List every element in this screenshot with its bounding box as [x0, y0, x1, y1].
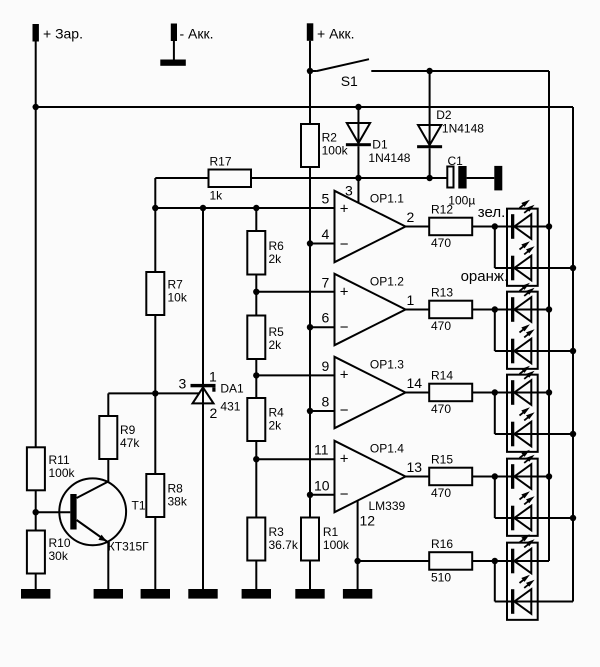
node +Zar rail corner junction: [33, 104, 39, 110]
wire R13 to LED pair: [472, 309, 549, 311]
svg-text:R15: R15: [431, 453, 453, 467]
LED pair box 1: [507, 209, 538, 286]
ground (R8): [141, 589, 170, 599]
svg-text:14: 14: [407, 375, 423, 391]
wire divider to OP1.2 - input: [310, 326, 335, 328]
svg-text:8: 8: [322, 394, 330, 410]
svg-text:R7: R7: [168, 278, 184, 292]
svg-text:470: 470: [431, 319, 451, 333]
svg-text:470: 470: [431, 236, 451, 250]
resistor R10 30k: [27, 531, 71, 574]
LED orange/bottom of pair 3: [511, 407, 535, 446]
node divider junction: [307, 408, 313, 414]
ground (T1 emitter): [94, 589, 123, 599]
svg-text:2: 2: [407, 209, 415, 225]
resistor R15 470: [429, 453, 472, 501]
node D1 on supply rail: [355, 175, 361, 181]
LED orange/bottom of pair 2: [511, 324, 535, 363]
LED pair box 2: [507, 292, 538, 369]
terminal -Akk.: [171, 24, 214, 42]
node ladder tap junction: [253, 456, 259, 462]
node second LED anode on +Zar rail: [570, 348, 576, 354]
svg-text:OP1.2: OP1.2: [370, 274, 404, 288]
svg-text:R2: R2: [322, 131, 338, 145]
resistor R5 2k: [247, 316, 284, 360]
shunt regulator DA1 431: [179, 368, 245, 421]
svg-text:10k: 10k: [168, 291, 188, 305]
LED green/top of pair 3: [511, 366, 535, 405]
resistor R8 38k: [146, 393, 188, 517]
svg-text:−: −: [340, 486, 349, 503]
node divider junction: [307, 324, 313, 330]
wire R17 left to reference column: [155, 178, 208, 208]
LED orange/bottom of pair 5: [511, 575, 535, 614]
svg-text:2: 2: [210, 405, 218, 421]
svg-text:R9: R9: [120, 423, 136, 437]
svg-text:30k: 30k: [49, 549, 69, 563]
wire comparator supply rail: [251, 177, 447, 179]
node LED anode on rail: [546, 306, 552, 312]
resistor R12 470: [429, 203, 472, 251]
node ref row / R7 column: [152, 205, 158, 211]
wire R3 to ground: [255, 561, 257, 590]
svg-text:D2: D2: [436, 108, 452, 122]
LED pair box 3: [507, 375, 538, 452]
svg-text:1N4148: 1N4148: [368, 151, 410, 165]
node LED cathode junction: [492, 223, 498, 229]
svg-text:470: 470: [431, 486, 451, 500]
node D2 on supply rail: [426, 175, 432, 181]
svg-text:R1: R1: [323, 525, 339, 539]
svg-text:R4: R4: [269, 406, 285, 420]
wire R6 to R5: [255, 275, 257, 316]
wire R11 to R10: [35, 490, 37, 530]
node LED anode on rail: [546, 389, 552, 395]
svg-text:1: 1: [407, 292, 415, 308]
LED green/top of pair 5: [511, 534, 535, 573]
wire R12 to LED pair: [472, 226, 549, 228]
svg-text:R3: R3: [269, 525, 285, 539]
svg-text:зел.: зел.: [478, 204, 505, 221]
wire second LED branch (drop and row): [495, 393, 573, 435]
svg-text:R5: R5: [269, 325, 285, 339]
svg-text:OP1.4: OP1.4: [370, 441, 404, 455]
ground (R1): [295, 589, 324, 599]
svg-text:100k: 100k: [49, 466, 76, 480]
node ref row / DA1 column: [200, 205, 206, 211]
svg-text:LM339: LM339: [369, 499, 406, 513]
svg-text:+ Акк.: + Акк.: [317, 26, 355, 42]
svg-text:R13: R13: [431, 286, 453, 300]
node second LED anode on +Zar rail: [570, 431, 576, 437]
svg-text:5: 5: [322, 191, 330, 207]
wire OP1.1 pin3 to supply rail: [357, 178, 359, 203]
wire ladder top segment: [255, 208, 257, 231]
svg-text:−: −: [340, 236, 349, 253]
wire R8 bottom to ground: [154, 517, 156, 589]
label zel. (green): [478, 204, 505, 221]
resistor R14 470: [429, 369, 472, 417]
svg-text:DA1: DA1: [220, 382, 244, 396]
svg-text:R17: R17: [210, 155, 232, 169]
wire R9 bottom to T1 collector: [107, 459, 109, 483]
LED green/top of pair 2: [511, 283, 535, 322]
svg-text:R16: R16: [431, 537, 453, 551]
node second LED anode on +Zar rail: [570, 515, 576, 521]
resistor R7 10k: [146, 208, 188, 315]
svg-text:100k: 100k: [322, 144, 349, 158]
wire OP1.3 output to R14: [406, 392, 430, 394]
svg-text:T1: T1: [132, 499, 146, 513]
svg-text:2k: 2k: [269, 252, 283, 266]
svg-text:3: 3: [345, 183, 353, 199]
resistor R3 36.7k: [247, 518, 299, 561]
svg-text:7: 7: [322, 274, 330, 290]
switch S1: [310, 59, 369, 89]
svg-text:R10: R10: [49, 536, 71, 550]
svg-text:431: 431: [220, 399, 240, 413]
wire R15 to LED pair: [472, 476, 549, 478]
LED green/top of pair 1: [511, 200, 535, 239]
wire switch to right rail: [371, 70, 549, 72]
wire R6/R5 tap to OP1.2 +: [256, 291, 334, 293]
terminal +Zar.: [33, 24, 83, 42]
wire OP1.2 output to R13: [406, 309, 430, 311]
wire right vertical rail from +Zar: [572, 107, 574, 602]
ground (pin12): [343, 589, 372, 599]
resistor R17 1k: [209, 155, 252, 203]
svg-text:D1: D1: [372, 138, 388, 152]
svg-text:C1: C1: [448, 154, 464, 168]
LED green/top of pair 4: [511, 450, 535, 489]
svg-text:R8: R8: [168, 482, 184, 496]
node ladder tap junction: [253, 289, 259, 295]
node ref divider (R7/R8/R9/DA1-ref): [152, 390, 158, 396]
op-amp comparator OP1.1: [322, 183, 415, 263]
svg-text:10: 10: [314, 477, 330, 493]
svg-text:+: +: [340, 201, 349, 218]
wire second LED branch (drop and row): [495, 561, 573, 602]
ground (R10): [21, 589, 50, 599]
label oranzh. (orange): [461, 268, 509, 285]
op-amp comparator OP1.4: [314, 441, 422, 529]
op-amp comparator OP1.2: [322, 274, 415, 345]
LED pair box 5: [507, 543, 538, 620]
wire OP1.4 pin12 to ground: [357, 501, 359, 589]
resistor R13 470: [429, 286, 472, 334]
node divider junction: [307, 240, 313, 246]
LED orange/bottom of pair 4: [511, 491, 535, 530]
svg-text:47k: 47k: [120, 436, 140, 450]
wire DA1 cathode column: [202, 208, 204, 589]
svg-text:36.7k: 36.7k: [269, 538, 299, 552]
svg-text:6: 6: [322, 310, 330, 326]
svg-text:+: +: [340, 367, 349, 384]
wire R4 to R3: [255, 441, 257, 518]
wire R4/R3 tap to OP1.4 +: [256, 458, 334, 460]
svg-text:38k: 38k: [168, 495, 188, 509]
svg-text:11: 11: [314, 442, 329, 458]
wire reference row to OP1.1 + input: [155, 207, 334, 209]
wire T1 base from R11/R10 divider: [36, 511, 71, 513]
wire OP1.1 output to R12: [406, 226, 430, 228]
node pin12 / R16 junction: [354, 558, 360, 564]
terminal +Akk.: [307, 23, 355, 41]
node ladder tap junction: [253, 372, 259, 378]
wire -Akk terminal to ground: [173, 41, 175, 60]
svg-text:470: 470: [431, 402, 451, 416]
ground (R3): [242, 589, 271, 599]
svg-text:оранж.: оранж.: [461, 268, 509, 285]
svg-text:12: 12: [360, 513, 376, 529]
svg-text:R14: R14: [431, 369, 453, 383]
wire +Akk terminal down to switch: [309, 41, 311, 71]
svg-text:9: 9: [322, 358, 330, 374]
wire OP1.4 output to R15: [406, 476, 430, 478]
LED orange/bottom of pair 1: [511, 241, 535, 280]
svg-text:−: −: [340, 402, 349, 419]
wire R7 bottom to ref-divider node: [154, 315, 156, 393]
transistor T1 KT315G: [59, 478, 149, 553]
wire D2 cathode to supply rail: [429, 148, 431, 178]
ground for -Akk terminal: [160, 60, 186, 66]
wire divider to OP1.4 - input: [310, 494, 335, 496]
wire +Zar horizontal rail: [36, 106, 573, 108]
wire second LED branch (drop and row): [495, 477, 573, 519]
svg-text:R12: R12: [431, 203, 453, 217]
wire +Zar terminal down to top rail: [35, 42, 37, 108]
wire DA1 ref to divider node: [108, 392, 199, 394]
svg-text:3: 3: [179, 376, 187, 392]
svg-text:R11: R11: [49, 453, 70, 467]
wire +Akk junction down to R2: [309, 71, 311, 124]
node switch/+Akk junction: [307, 68, 313, 74]
wire D2 anode from switch wire: [429, 71, 431, 145]
node divider junction: [307, 492, 313, 498]
wire pin12 to R16: [358, 560, 430, 562]
svg-text:R6: R6: [269, 239, 285, 253]
resistor R6 2k: [247, 231, 284, 275]
wire C1 to ground bar: [467, 177, 495, 179]
wire second LED branch (drop and row): [495, 227, 573, 269]
wire R5 to R4: [255, 359, 257, 398]
wire D1 cathode to supply rail: [357, 146, 359, 178]
svg-text:OP1.3: OP1.3: [370, 357, 404, 371]
diode D1 1N4148: [346, 123, 411, 165]
node LED anode on rail: [546, 223, 552, 229]
resistor R16 510: [429, 537, 472, 585]
node bottom LED cathode junction: [492, 558, 498, 564]
node D1 top junction: [355, 104, 361, 110]
wire divider to OP1.3 - input: [310, 410, 335, 412]
wire +Zar rail down to R11: [35, 107, 37, 447]
wire R2 bottom to divider column (crosses supply rail): [309, 167, 311, 518]
op-amp comparator OP1.3: [322, 357, 423, 428]
svg-text:100k: 100k: [323, 538, 350, 552]
diode D2 1N4148: [417, 108, 484, 148]
wire R5/R4 tap to OP1.3 +: [256, 374, 334, 376]
node switch wire / D2 junction: [426, 68, 432, 74]
LED pair box 4: [507, 459, 538, 536]
wire R1 to ground: [309, 561, 311, 590]
node ref row / ladder column: [253, 205, 259, 211]
wire R16 to bottom LED pair: [472, 560, 549, 562]
resistor R1 100k: [301, 518, 350, 561]
wire R10 to ground: [35, 574, 37, 590]
svg-text:S1: S1: [341, 73, 358, 89]
wire divider to OP1.1 - input: [310, 243, 335, 245]
svg-text:510: 510: [431, 571, 451, 585]
node LED cathode junction: [492, 306, 498, 312]
svg-text:OP1.1: OP1.1: [370, 191, 404, 205]
resistor R11 100k: [27, 447, 76, 490]
svg-text:13: 13: [407, 459, 423, 475]
wire R14 to LED pair: [472, 392, 549, 394]
svg-text:2k: 2k: [269, 338, 283, 352]
svg-text:+: +: [340, 284, 349, 301]
svg-text:2k: 2k: [269, 419, 283, 433]
svg-text:1k: 1k: [210, 189, 224, 203]
svg-text:−: −: [340, 319, 349, 336]
svg-text:1N4148: 1N4148: [442, 122, 484, 136]
node T1 base divider: [33, 509, 39, 515]
svg-text:КТ315Г: КТ315Г: [108, 540, 149, 554]
svg-text:+ Зар.: + Зар.: [43, 26, 83, 42]
svg-text:- Акк.: - Акк.: [180, 26, 214, 42]
resistor R9 47k: [99, 393, 140, 459]
resistor R2 100k: [301, 124, 349, 167]
svg-text:4: 4: [322, 226, 330, 242]
ground (DA1): [188, 589, 217, 599]
node LED cathode junction: [492, 389, 498, 395]
svg-text:+: +: [340, 451, 349, 468]
svg-text:1: 1: [209, 368, 217, 384]
wire T1 emitter to ground: [107, 543, 109, 590]
node LED anode on rail: [546, 473, 552, 479]
node LED cathode junction: [492, 473, 498, 479]
wire second LED branch (drop and row): [495, 310, 573, 352]
resistor R4 2k: [247, 398, 284, 441]
ground bar right of C1: [494, 166, 502, 191]
node second LED anode on +Zar rail: [570, 265, 576, 271]
wire D1 anode from +Zar rail: [357, 107, 359, 143]
wire right vertical rail from switch (orange anode bus... green): [548, 71, 550, 561]
capacitor C1 100u: [447, 154, 475, 208]
